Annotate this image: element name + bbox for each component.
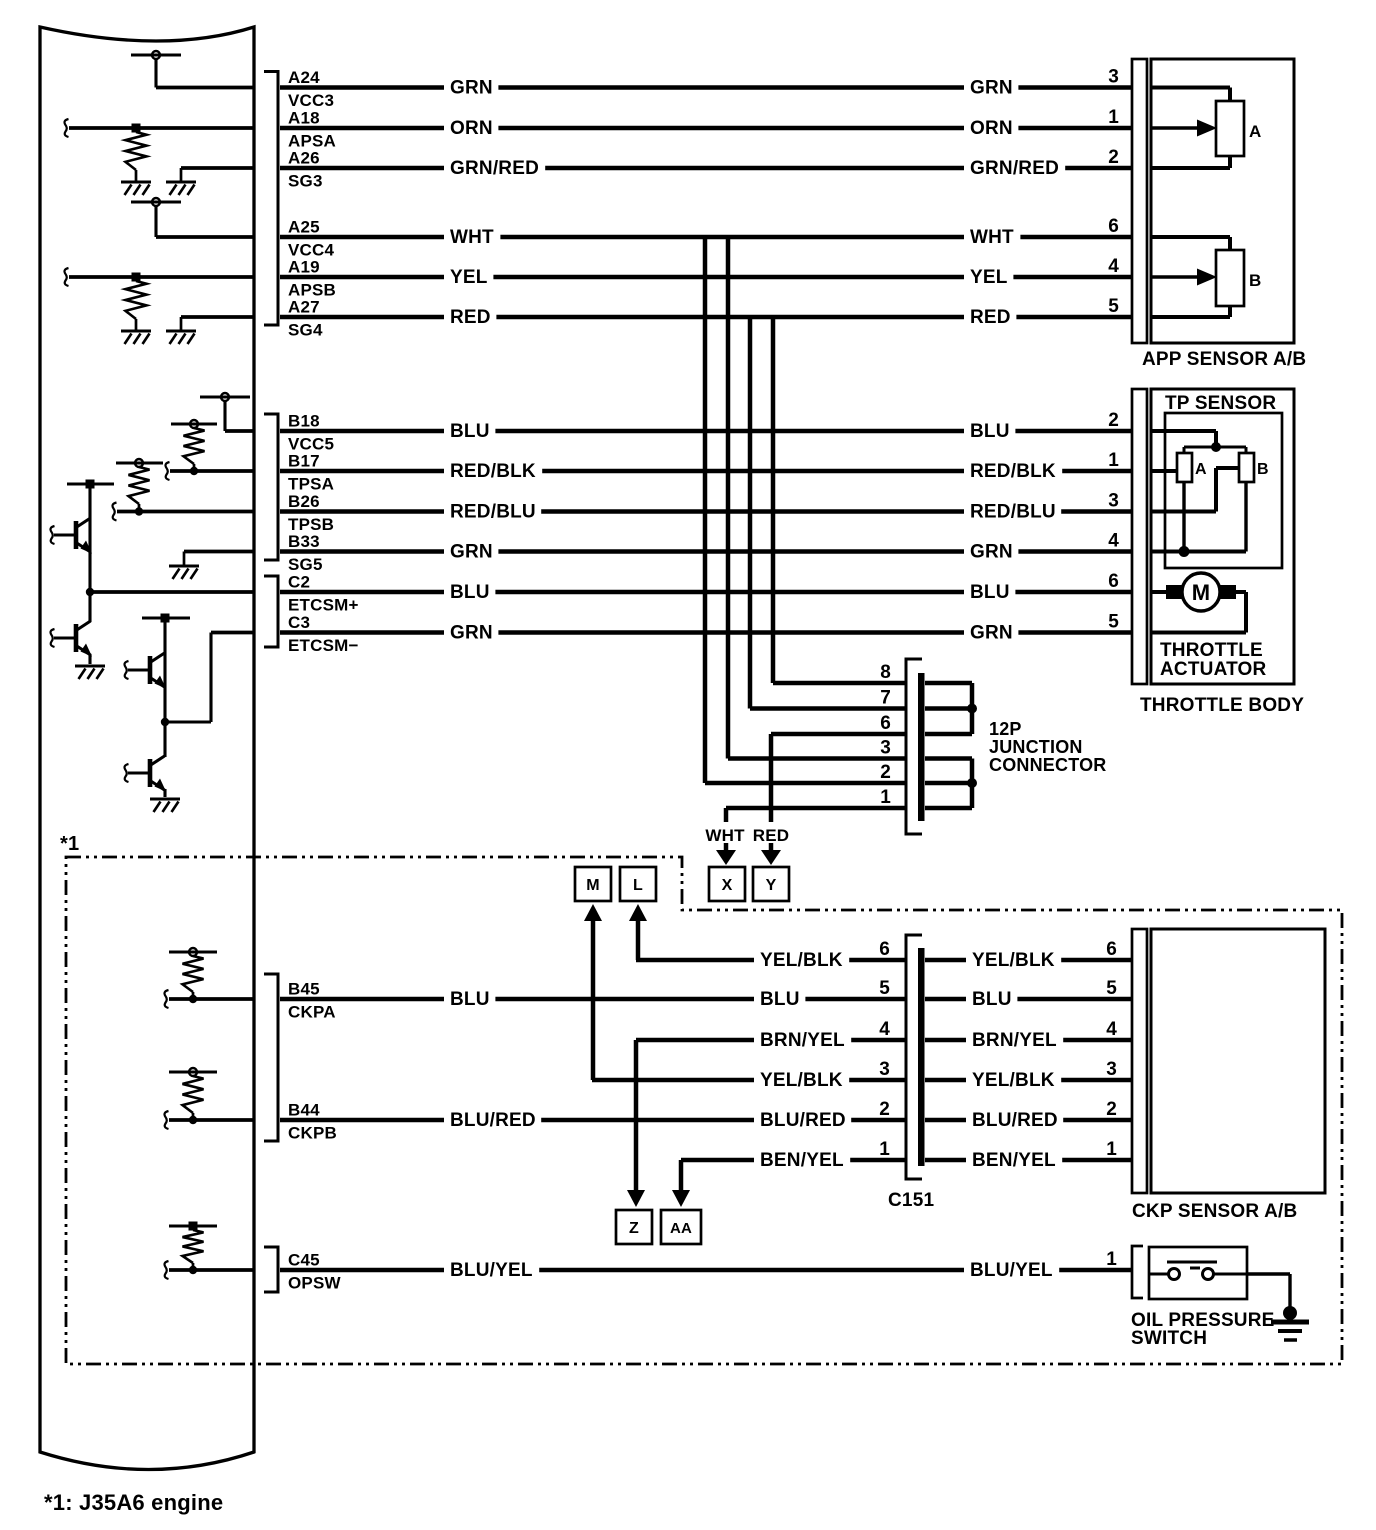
potentiometer A	[1216, 101, 1261, 156]
svg-text:BLU: BLU	[450, 989, 490, 1010]
svg-text:A26: A26	[288, 149, 320, 168]
svg-text:RED/BLK: RED/BLK	[970, 461, 1056, 482]
wire Q1 emitter to ETCSM+ node	[88, 551, 91, 592]
CKP sensor connector strip	[1132, 929, 1147, 1193]
throttle body pin number 1	[1108, 450, 1119, 471]
VCC5 supply node	[200, 393, 250, 431]
wire B45 BLU to C151 pin 5	[280, 988, 905, 1010]
svg-text:A19: A19	[288, 258, 320, 277]
svg-text:TPSA: TPSA	[288, 475, 334, 494]
svg-text:C2: C2	[288, 573, 310, 592]
svg-text:BLU/YEL: BLU/YEL	[450, 1260, 533, 1281]
svg-text:B33: B33	[288, 532, 320, 551]
ground under APSA resistor	[121, 170, 151, 195]
wire BEN/YEL to CKP pin 1	[925, 1149, 1132, 1171]
svg-text:6: 6	[879, 939, 890, 960]
supply node for Q3	[142, 614, 190, 655]
svg-text:YEL/BLK: YEL/BLK	[972, 950, 1055, 971]
APP sensor connector strip	[1132, 59, 1147, 343]
potentiometer B	[1216, 250, 1261, 306]
pin A26 label	[288, 149, 323, 191]
svg-text:1: 1	[880, 787, 891, 808]
wire A19 YEL to APP sensor pin 4	[280, 266, 1132, 288]
svg-text:5: 5	[1108, 296, 1119, 317]
svg-text:A24: A24	[288, 68, 320, 87]
wire BLU to CKP pin 5	[925, 988, 1132, 1010]
svg-text:4: 4	[879, 1019, 890, 1040]
12P junction connector pin number 3	[880, 738, 891, 759]
wire 12P pin 6 to connector Y	[771, 734, 905, 822]
wire APP pin 2 to pot A bottom	[1151, 156, 1230, 168]
svg-text:WHT: WHT	[705, 826, 745, 845]
CKPA pull-up node	[169, 948, 217, 956]
12P junction connector pin number 8	[880, 662, 891, 683]
resistor TPSB pull-up	[129, 467, 150, 504]
svg-text:THROTTLE: THROTTLE	[1160, 640, 1263, 661]
svg-text:M: M	[1192, 580, 1211, 605]
C151 left pin number 4	[879, 1019, 890, 1040]
C151 right pin number 4	[1106, 1019, 1117, 1040]
oil pressure switch contacts	[1149, 1262, 1247, 1280]
TP resistor element A	[1177, 453, 1207, 482]
svg-text:RED: RED	[970, 307, 1011, 328]
pin B44 label	[288, 1101, 337, 1143]
svg-text:GRN: GRN	[970, 623, 1013, 644]
supply node for Q1	[67, 480, 114, 520]
connector M box	[575, 867, 611, 921]
wire VCC5 node to pin B18	[225, 429, 254, 433]
connector X arrow	[709, 843, 745, 901]
APP sensor pin number 5	[1108, 296, 1119, 317]
pin bracket B18-SG5	[264, 414, 278, 560]
svg-text:3: 3	[1108, 67, 1119, 88]
junction OPSW	[189, 1263, 197, 1274]
svg-text:B45: B45	[288, 980, 320, 999]
label THROTTLE BODY	[1140, 695, 1304, 716]
svg-text:SG3: SG3	[288, 172, 323, 191]
svg-text:1: 1	[1108, 450, 1119, 471]
C151 right pin number 2	[1106, 1099, 1117, 1120]
connector Y arrow	[753, 843, 789, 901]
wire BRN/YEL to connector Z	[634, 1040, 639, 1193]
ground SG4	[166, 331, 196, 344]
wire motor return to pin 5	[1151, 592, 1246, 633]
svg-text:7: 7	[880, 688, 891, 709]
svg-text:*1: *1	[60, 833, 79, 855]
svg-text:5: 5	[1108, 612, 1119, 633]
svg-text:YEL/BLK: YEL/BLK	[972, 1070, 1055, 1091]
svg-text:RED/BLU: RED/BLU	[450, 502, 536, 523]
label C151	[888, 1190, 934, 1211]
svg-text:Z: Z	[629, 1220, 639, 1237]
C151 left pin number 6	[879, 939, 890, 960]
chassis ground	[1271, 1306, 1309, 1340]
pin bracket C2-C3	[264, 576, 278, 647]
wire C45 BLU/YEL to oil pressure switch	[280, 1259, 1131, 1281]
svg-text:BLU: BLU	[970, 582, 1010, 603]
TP resistor element B	[1239, 453, 1269, 482]
svg-text:6: 6	[1106, 939, 1117, 960]
12P right bridge pins 3-2-1	[925, 759, 977, 809]
12P right bridge pins 8-7-6	[925, 683, 977, 734]
svg-text:B44: B44	[288, 1101, 320, 1120]
wire WHT drop 1 to 12P pin 2	[705, 237, 905, 783]
wire APP pin 5 to pot B bottom	[1151, 306, 1230, 317]
wire WHT drop 2 to 12P pin 3	[728, 237, 905, 759]
wire TPSB inside ECM	[113, 503, 255, 521]
wire RED drop 1 to 12P pin 7	[750, 317, 905, 709]
svg-text:B: B	[1257, 461, 1269, 478]
svg-text:X: X	[722, 877, 733, 894]
ground under APSB resistor	[121, 319, 151, 344]
pin bracket A24-SG4	[264, 72, 278, 326]
label OIL PRESSURE SWITCH	[1131, 1310, 1275, 1349]
svg-text:YEL/BLK: YEL/BLK	[760, 1070, 843, 1091]
svg-text:BLU/RED: BLU/RED	[760, 1110, 846, 1131]
wire Q2 emitter to ground	[88, 654, 91, 664]
svg-text:AA: AA	[670, 1220, 692, 1237]
svg-text:TP SENSOR: TP SENSOR	[1165, 393, 1276, 414]
oil pressure switch box	[1149, 1247, 1247, 1299]
svg-text:5: 5	[1106, 978, 1117, 999]
svg-text:2: 2	[880, 762, 891, 783]
TP top node bar	[1184, 442, 1246, 453]
resistor APSB pull-down	[126, 281, 147, 319]
junction APSA/resistor	[132, 124, 141, 133]
APP sensor pin number 2	[1108, 147, 1119, 168]
svg-text:3: 3	[879, 1059, 890, 1080]
svg-text:BRN/YEL: BRN/YEL	[760, 1030, 845, 1051]
svg-text:2: 2	[1106, 1099, 1117, 1120]
svg-text:L: L	[633, 877, 643, 894]
wire B33 GRN to TP sensor pin 4	[280, 541, 1132, 563]
wiper arrow APP A	[1151, 120, 1217, 137]
svg-text:BLU: BLU	[972, 989, 1012, 1010]
svg-text:THROTTLE BODY: THROTTLE BODY	[1140, 695, 1304, 716]
oil pressure switch connector bracket	[1132, 1246, 1143, 1298]
svg-text:GRN: GRN	[450, 623, 493, 644]
wire TP pin 1 to element A	[1151, 469, 1177, 473]
connector AA box	[661, 1190, 701, 1244]
pin C3 label	[288, 613, 359, 655]
12P junction connector symbol	[906, 659, 925, 834]
ground SG3	[166, 182, 196, 195]
APP sensor pin number 3	[1108, 67, 1119, 88]
svg-text:6: 6	[1108, 571, 1119, 592]
svg-text:CONNECTOR: CONNECTOR	[989, 755, 1106, 775]
oil pressure switch pin number 1	[1106, 1249, 1117, 1270]
svg-text:GRN: GRN	[970, 542, 1013, 563]
wire APSB inside ECM	[65, 268, 255, 286]
svg-text:JUNCTION: JUNCTION	[989, 737, 1083, 757]
wire BRN/YEL C151 pin 4	[636, 1029, 905, 1051]
ground SG5	[169, 566, 199, 579]
wire BEN/YEL C151 pin 1	[681, 1149, 905, 1171]
wire BEN/YEL to connector AA	[679, 1160, 684, 1193]
pin B17 label	[288, 452, 334, 494]
svg-text:BLU: BLU	[970, 421, 1010, 442]
svg-text:YEL: YEL	[970, 267, 1008, 288]
svg-text:A18: A18	[288, 109, 320, 128]
svg-text:VCC3: VCC3	[288, 91, 334, 110]
junction ETCSM+	[86, 588, 94, 596]
svg-text:3: 3	[880, 738, 891, 759]
wire switch to chassis ground	[1247, 1274, 1290, 1315]
svg-text:2: 2	[1108, 147, 1119, 168]
wire B44 BLU/RED to C151 pin 2	[280, 1109, 905, 1131]
svg-text:GRN/RED: GRN/RED	[970, 158, 1059, 179]
junction TPSB	[135, 504, 143, 516]
svg-text:CKPB: CKPB	[288, 1124, 337, 1143]
junction CKPB	[189, 1113, 197, 1124]
pin C45 label	[288, 1251, 342, 1293]
svg-text:BEN/YEL: BEN/YEL	[972, 1150, 1056, 1171]
wire A25 WHT to APP sensor pin 6	[280, 226, 1132, 248]
C151 left pin number 2	[879, 1099, 890, 1120]
svg-text:B26: B26	[288, 492, 320, 511]
pin bracket B45-B44	[264, 974, 278, 1141]
wire YEL/BLK C151 pin 6	[636, 949, 905, 971]
svg-text:BLU/RED: BLU/RED	[450, 1110, 536, 1131]
C151 right pin number 6	[1106, 939, 1117, 960]
svg-text:WHT: WHT	[970, 227, 1014, 248]
wire A24 GRN to APP sensor pin 3	[280, 77, 1132, 99]
svg-text:SG5: SG5	[288, 555, 323, 574]
caption *1: J35A6 engine	[44, 1490, 223, 1515]
svg-text:Y: Y	[766, 877, 777, 894]
CKP sensor A/B box	[1151, 929, 1325, 1193]
svg-text:2: 2	[1108, 410, 1119, 431]
wire Q4 emitter to ground	[163, 789, 166, 797]
svg-text:B17: B17	[288, 452, 320, 471]
svg-text:ETCSM+: ETCSM+	[288, 596, 359, 615]
label TP SENSOR	[1165, 393, 1276, 414]
throttle body box	[1151, 389, 1294, 684]
transistor Q4 (ETCSM- low side)	[125, 722, 167, 792]
svg-text:BEN/YEL: BEN/YEL	[760, 1150, 844, 1171]
wire ETCSM- tap	[165, 633, 254, 723]
TP sensor inner box	[1165, 413, 1282, 568]
wire B26 RED/BLU to TP sensor pin 3	[280, 501, 1132, 523]
wire B18 BLU to TP sensor pin 2	[280, 420, 1132, 442]
ground Q2 emitter	[75, 666, 105, 679]
wire SG3 inside ECM	[181, 168, 254, 182]
resistor APSA pull-down	[126, 132, 147, 170]
wire YEL/BLK to CKP pin 6	[925, 949, 1132, 971]
wire C2 BLU to throttle motor pin 6	[280, 581, 1132, 603]
12P junction connector pin number 7	[880, 688, 891, 709]
svg-text:5: 5	[879, 978, 890, 999]
wire YEL/BLK to CKP pin 3	[925, 1069, 1132, 1091]
wire TPSA inside ECM	[166, 462, 255, 480]
C151 left pin number 5	[879, 978, 890, 999]
svg-text:GRN: GRN	[970, 78, 1013, 99]
pin A19 label	[288, 258, 336, 300]
svg-text:B18: B18	[288, 412, 320, 431]
svg-text:B: B	[1249, 271, 1261, 290]
label APP SENSOR A/B	[1142, 349, 1306, 370]
throttle body pin number 4	[1108, 531, 1119, 552]
label WHT above connector X	[705, 826, 745, 845]
pin A25 label	[288, 218, 334, 260]
12P junction connector pin number 2	[880, 762, 891, 783]
transistor Q1 (ETCSM+ high side)	[51, 518, 93, 554]
svg-text:ORN: ORN	[450, 118, 493, 139]
connector C151 symbol	[906, 935, 925, 1179]
svg-text:C151: C151	[888, 1190, 934, 1211]
svg-text:6: 6	[1108, 216, 1119, 237]
throttle actuator motor M	[1166, 573, 1236, 611]
svg-text:YEL/BLK: YEL/BLK	[760, 950, 843, 971]
wiper arrow APP B	[1151, 269, 1217, 286]
APP sensor pin number 1	[1108, 107, 1119, 128]
resistor TPSA pull-up	[184, 428, 205, 464]
svg-text:BLU: BLU	[450, 582, 490, 603]
junction TPSA	[190, 464, 198, 475]
wire CKPB inside ECM	[165, 1111, 255, 1129]
wire YEL/BLK C151 pin 3	[592, 1069, 905, 1091]
svg-text:WHT: WHT	[450, 227, 494, 248]
wire connector M to YEL/BLK pin 3	[591, 918, 596, 1080]
APP sensor A/B box	[1151, 59, 1294, 343]
TPSB pull-up node	[116, 459, 163, 467]
wire A26 GRN/RED to APP sensor pin 2	[280, 157, 1132, 179]
C151 right pin number 3	[1106, 1059, 1117, 1080]
svg-text:BRN/YEL: BRN/YEL	[972, 1030, 1057, 1051]
12P junction connector pin number 1	[880, 787, 891, 808]
svg-text:3: 3	[1108, 491, 1119, 512]
svg-text:SG4: SG4	[288, 321, 323, 340]
svg-text:ETCSM−: ETCSM−	[288, 636, 359, 655]
wire ETCSM+ inside ECM	[90, 590, 254, 594]
ground Q4 emitter	[150, 799, 180, 812]
pin A18 label	[288, 109, 336, 151]
label THROTTLE ACTUATOR	[1160, 640, 1267, 680]
label CKP SENSOR A/B	[1132, 1201, 1297, 1222]
junction CKPA	[189, 992, 197, 1003]
wire TP pin 2 to top node	[1151, 431, 1216, 447]
svg-text:2: 2	[879, 1099, 890, 1120]
svg-text:CKPA: CKPA	[288, 1003, 336, 1022]
throttle body pin number 3	[1108, 491, 1119, 512]
wire TP pin 3 to element B	[1151, 468, 1239, 512]
resistor CKPB pull-up	[183, 1076, 204, 1113]
throttle body pin number 2	[1108, 410, 1119, 431]
pin B18 label	[288, 412, 334, 454]
svg-text:BLU/RED: BLU/RED	[972, 1110, 1058, 1131]
svg-text:RED/BLK: RED/BLK	[450, 461, 536, 482]
svg-text:A27: A27	[288, 298, 320, 317]
svg-text:12P: 12P	[989, 719, 1022, 739]
svg-text:C45: C45	[288, 1251, 320, 1270]
svg-text:RED/BLU: RED/BLU	[970, 502, 1056, 523]
wire motor pin 6	[1151, 590, 1166, 594]
wire VCC4 node to pin A25	[156, 235, 254, 239]
TPSA pull-up node	[171, 420, 217, 428]
svg-text:C3: C3	[288, 613, 310, 632]
svg-text:1: 1	[879, 1139, 890, 1160]
svg-text:RED: RED	[753, 826, 790, 845]
wire APP pin 6 to pot B top	[1151, 237, 1230, 250]
svg-text:3: 3	[1106, 1059, 1117, 1080]
throttle body pin number 6	[1108, 571, 1119, 592]
resistor OPSW pull-up	[183, 1230, 204, 1263]
svg-text:SWITCH: SWITCH	[1131, 1328, 1207, 1349]
C151 right pin number 5	[1106, 978, 1117, 999]
svg-text:A: A	[1195, 461, 1207, 478]
svg-text:RED: RED	[450, 307, 491, 328]
pin bracket C45	[264, 1247, 278, 1292]
svg-text:APP SENSOR A/B: APP SENSOR A/B	[1142, 349, 1306, 370]
svg-text:ACTUATOR: ACTUATOR	[1160, 659, 1267, 680]
C151 right pin number 1	[1106, 1139, 1117, 1160]
APP sensor pin number 4	[1108, 256, 1119, 277]
VCC3 supply node	[131, 51, 181, 88]
wire A18 ORN to APP sensor pin 1	[280, 117, 1132, 139]
svg-text:1: 1	[1106, 1139, 1117, 1160]
wire BLU/RED to CKP pin 2	[925, 1109, 1132, 1131]
wire VCC3 node to pin A24	[156, 86, 254, 90]
label *1	[60, 833, 79, 855]
connector L box	[620, 867, 656, 921]
pin B26 label	[288, 492, 334, 534]
svg-text:BLU/YEL: BLU/YEL	[970, 1260, 1053, 1281]
pin A27 label	[288, 298, 323, 340]
resistor CKPA pull-up	[183, 956, 204, 992]
wire SG5 inside ECM	[184, 552, 254, 567]
label RED above connector Y	[753, 826, 790, 845]
wire RED drop 2 to 12P pin 8	[773, 317, 905, 683]
J35A6 engine section border (dash-dot)	[66, 857, 1342, 1364]
label 12P JUNCTION CONNECTOR	[989, 719, 1106, 775]
svg-text:GRN/RED: GRN/RED	[450, 158, 539, 179]
svg-text:4: 4	[1108, 531, 1119, 552]
VCC4 supply node	[131, 198, 181, 237]
svg-text:BLU: BLU	[450, 421, 490, 442]
wire C3 GRN to throttle motor pin 5	[280, 622, 1132, 644]
junction ETCSM-	[161, 686, 169, 726]
svg-text:*1: J35A6 engine: *1: J35A6 engine	[44, 1490, 223, 1515]
svg-text:GRN: GRN	[450, 542, 493, 563]
transistor Q2 (ETCSM+ low side)	[51, 592, 93, 657]
svg-text:GRN: GRN	[450, 78, 493, 99]
transistor Q3 (ETCSM- high side)	[125, 653, 167, 689]
throttle body pin number 5	[1108, 612, 1119, 633]
svg-text:OPSW: OPSW	[288, 1274, 342, 1293]
svg-text:YEL: YEL	[450, 267, 488, 288]
C151 left pin number 1	[879, 1139, 890, 1160]
svg-text:4: 4	[1106, 1019, 1117, 1040]
OPSW pull-up node	[169, 1222, 217, 1231]
wire 12P pin 1 to connector X	[726, 808, 905, 822]
svg-text:A: A	[1249, 122, 1261, 141]
connector Z box	[616, 1190, 652, 1244]
C151 left pin number 3	[879, 1059, 890, 1080]
svg-text:BLU: BLU	[760, 989, 800, 1010]
svg-text:M: M	[586, 877, 600, 894]
svg-text:A25: A25	[288, 218, 320, 237]
wire A27 RED to APP sensor pin 5	[280, 306, 1132, 328]
wire TP pin 4 bottom bus	[1151, 482, 1246, 557]
throttle body connector strip	[1132, 389, 1147, 684]
svg-text:CKP SENSOR A/B: CKP SENSOR A/B	[1132, 1201, 1297, 1222]
svg-text:1: 1	[1106, 1249, 1117, 1270]
wire OPSW inside ECM	[165, 1261, 255, 1279]
svg-text:ORN: ORN	[970, 118, 1013, 139]
svg-text:6: 6	[880, 713, 891, 734]
pin B33 label	[288, 532, 323, 574]
CKPB pull-up node	[169, 1068, 217, 1076]
